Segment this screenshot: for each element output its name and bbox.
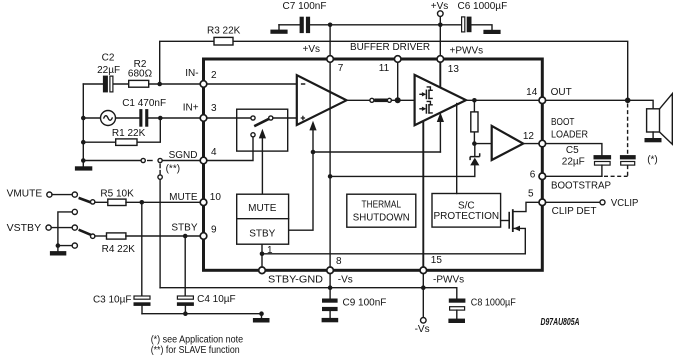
transistor glyph Q-low — [420, 101, 432, 113]
label IN- / pin 2 — [185, 68, 198, 79]
resistor R-int (bootstrap) — [471, 100, 478, 143]
speaker LS1 — [647, 94, 673, 145]
svg-text:4: 4 — [211, 147, 217, 158]
capacitor C8 1000uF — [449, 288, 516, 319]
pin 6 — [530, 170, 546, 181]
wire CLIP DET / VCLIP terminal — [546, 198, 639, 217]
pin 11 — [379, 56, 401, 74]
wire mosfet source to stby-gnd net — [262, 253, 525, 255]
wire pin13 riser from +Vs node — [439, 25, 441, 59]
wire -Vs rail — [160, 285, 457, 290]
wire pin11 riser — [397, 62, 399, 100]
node buffer input junction — [472, 141, 477, 146]
svg-text:C4 10µF: C4 10µF — [197, 294, 236, 305]
arrow mux control from MUTE block — [259, 129, 266, 194]
zener D1 — [470, 144, 480, 177]
svg-text:+Vs: +Vs — [431, 1, 449, 12]
arrow mute ctrl into power amp — [437, 112, 444, 152]
wire pin4 to switch lower contact — [207, 137, 253, 161]
power amp U1B output stage — [415, 75, 466, 125]
pin 13 — [437, 56, 459, 75]
svg-text:IN+: IN+ — [183, 103, 199, 114]
wire BOOTSTRAP pin6 — [546, 176, 612, 191]
node feedback/out junction — [625, 98, 631, 104]
wire feedback line R3 net — [160, 41, 628, 100]
svg-text:MUTE: MUTE — [248, 203, 277, 214]
wire +Vs top rail C7 to +Vs node — [279, 24, 461, 26]
capacitor C4 10uF — [177, 236, 236, 314]
node buffer/driver junction — [395, 97, 401, 103]
node +Vs terminal — [431, 1, 449, 27]
switch SW1 (mute select) — [47, 192, 108, 204]
input mux switch box — [237, 109, 288, 151]
wire to power amp input — [391, 99, 414, 101]
svg-text:10: 10 — [210, 192, 222, 203]
wire mute control net — [289, 150, 441, 231]
wire OUT to speaker — [546, 87, 654, 109]
svg-text:(**) for SLAVE function: (**) for SLAVE function — [151, 345, 240, 356]
node IN- junction — [157, 82, 162, 87]
resistor R4 22K — [102, 233, 201, 255]
wire pin7 riser (+Vs to -Vs through input stage) — [329, 25, 331, 270]
capacitor C-opt (*) dashed bootstrap — [604, 104, 658, 177]
source V1 (signal generator) — [81, 111, 139, 126]
pin 8 — [327, 256, 342, 274]
node stby/C4 junction — [183, 234, 188, 239]
svg-text:LOADER: LOADER — [551, 129, 588, 140]
svg-text:-Vs: -Vs — [338, 275, 353, 286]
ground (C7) — [270, 25, 287, 34]
svg-text:+PWVs: +PWVs — [450, 46, 484, 57]
svg-text:C9 100nF: C9 100nF — [343, 298, 387, 309]
node SGND open links — [141, 158, 162, 162]
svg-text:7: 7 — [338, 63, 344, 74]
mosfet Q1 clip detector — [501, 202, 539, 254]
svg-text:C5: C5 — [566, 145, 579, 156]
label IN+ / pin 3 — [183, 103, 199, 114]
pin 12 — [523, 131, 546, 147]
arrow mute ctrl into op-amp — [309, 121, 316, 152]
ground (speaker) — [645, 132, 662, 142]
svg-text:S/C: S/C — [458, 201, 475, 212]
svg-text:VMUTE: VMUTE — [7, 189, 43, 200]
capacitor C3 10uF — [93, 202, 151, 313]
svg-text:VSTBY: VSTBY — [7, 223, 42, 234]
wire stby block to pin1 — [260, 244, 265, 270]
svg-text:R3 22K: R3 22K — [207, 26, 241, 37]
wire pin3 to input switch — [207, 117, 251, 119]
ground (C8) — [448, 319, 465, 323]
svg-text:IN-: IN- — [185, 68, 198, 79]
svg-text:CLIP DET: CLIP DET — [552, 206, 597, 217]
label -Vs (pin 8) — [338, 275, 353, 286]
op-amp U1A input buffer — [297, 75, 347, 125]
wire pin15 riser to power stage — [422, 121, 424, 270]
label STBY-GND — [268, 275, 323, 286]
svg-text:C3 10µF: C3 10µF — [93, 294, 132, 305]
label BUFFER DRIVER — [350, 42, 430, 53]
label D97AU805A — [541, 317, 580, 328]
pin 15 — [420, 255, 442, 273]
resistor R5 10K — [100, 188, 200, 205]
svg-text:8: 8 — [336, 256, 342, 267]
svg-text:15: 15 — [431, 255, 443, 266]
resistor R2 680ohm — [128, 59, 200, 87]
svg-text:SHUTDOWN: SHUTDOWN — [353, 213, 410, 224]
svg-text:+Vs: +Vs — [302, 44, 320, 55]
svg-text:(*): (*) — [647, 155, 658, 166]
svg-text:2: 2 — [211, 70, 217, 81]
svg-text:(**): (**) — [166, 164, 180, 175]
svg-text:12: 12 — [523, 131, 535, 142]
node junction at pin7 riser top — [328, 23, 333, 28]
label +PWVs — [450, 46, 484, 57]
switch SW2 (stby select) — [46, 225, 107, 238]
svg-text:14: 14 — [526, 87, 538, 98]
svg-text:THERMAL: THERMAL — [362, 200, 402, 211]
pin 7 — [327, 56, 344, 74]
capacitor C5 22uF — [562, 145, 611, 176]
svg-text:BOOTSTRAP: BOOTSTRAP — [551, 181, 611, 192]
label -PWVs — [433, 275, 464, 286]
ground (switch) — [50, 246, 66, 256]
svg-text:6: 6 — [530, 170, 536, 181]
svg-text:22µF: 22µF — [562, 157, 585, 168]
svg-text:SGND: SGND — [169, 150, 198, 161]
wire SGND — [83, 160, 200, 162]
label VSTBY — [7, 223, 42, 234]
note (**) — [151, 345, 240, 356]
ground (input) — [75, 158, 92, 170]
svg-text:PROTECTION: PROTECTION — [434, 211, 500, 222]
svg-text:-PWVs: -PWVs — [433, 275, 464, 286]
label STBY / pin 9 — [171, 223, 197, 234]
label SGND / pin 4 — [169, 150, 198, 161]
svg-text:C8 1000µF: C8 1000µF — [471, 298, 516, 309]
terminal -Vs — [415, 288, 430, 335]
ground (STBY-GND) — [253, 314, 270, 323]
svg-text:BUFFER DRIVER: BUFFER DRIVER — [350, 42, 430, 53]
THERMAL SHUTDOWN block — [347, 194, 416, 227]
svg-text:OUT: OUT — [551, 87, 572, 98]
wire slave riser to -Vs rail — [159, 180, 161, 288]
capacitor C6 1000uF — [458, 1, 508, 32]
svg-text:C6 1000µF: C6 1000µF — [458, 1, 508, 12]
label VMUTE — [7, 189, 43, 200]
label +Vs (pin 7) — [302, 44, 320, 55]
pin 14 — [526, 87, 545, 104]
svg-text:13: 13 — [448, 64, 460, 75]
transistor glyph Q-high — [420, 87, 432, 99]
wire switch ground throws — [56, 209, 78, 248]
pin 1 — [259, 245, 273, 273]
node mute/C3 junction — [140, 200, 145, 205]
capacitor C7 100nF — [283, 1, 327, 33]
pin 5 — [528, 188, 546, 205]
wire power stage to S/C block — [456, 104, 458, 194]
IC U1 body — [204, 59, 543, 270]
svg-text:C2: C2 — [102, 53, 115, 64]
capacitor C9 100nF — [322, 288, 386, 318]
capacitor C1 470nF — [122, 98, 200, 127]
wire op-amp output to jumper — [347, 99, 370, 101]
svg-text:STBY: STBY — [249, 229, 275, 240]
svg-text:3: 3 — [211, 103, 217, 114]
resistor R3 22K — [207, 26, 241, 45]
svg-text:9: 9 — [211, 225, 217, 236]
wire pin13 riser to power stage — [439, 62, 441, 87]
wire switch to non-inverting input — [273, 117, 296, 119]
wire signal-ground rail — [142, 311, 264, 316]
label MUTE / pin 10 — [169, 192, 198, 203]
note (*) — [151, 335, 244, 346]
resistor R1 22K — [81, 118, 160, 145]
svg-text:5: 5 — [528, 188, 534, 199]
wire pin2 to op-amp inverting input — [207, 83, 296, 85]
svg-text:R4 22K: R4 22K — [102, 244, 136, 255]
S/C PROTECTION block — [432, 194, 501, 228]
wire pin8 drop — [329, 274, 331, 288]
buffer amp U1C boot loader — [474, 126, 539, 160]
svg-text:680Ω: 680Ω — [128, 68, 153, 79]
MUTE STBY block — [237, 194, 289, 244]
left input rail wire — [82, 84, 84, 161]
svg-text:STBY-GND: STBY-GND — [268, 275, 323, 286]
svg-text:STBY: STBY — [171, 223, 197, 234]
switch contacts and lever (slave mux) — [251, 116, 273, 137]
svg-text:D97AU805A: D97AU805A — [541, 317, 580, 328]
jumper link (buffer driver) — [370, 98, 392, 102]
svg-text:R5 10K: R5 10K — [100, 188, 134, 199]
capacitor C2 22uF — [83, 53, 128, 93]
label BOOT LOADER / wire pin12 — [546, 117, 602, 155]
wire zener to supply riser — [328, 174, 475, 179]
wire slave dashed drop — [158, 164, 180, 180]
svg-text:R1 22K: R1 22K — [112, 128, 146, 139]
svg-text:22µF: 22µF — [97, 65, 120, 76]
svg-text:11: 11 — [379, 63, 390, 74]
ground (C6) — [483, 30, 500, 34]
ground (C9) — [322, 318, 339, 322]
svg-text:1: 1 — [267, 245, 273, 256]
svg-text:MUTE: MUTE — [169, 192, 198, 203]
node output junction — [472, 98, 477, 103]
wire pin15 drop — [422, 274, 424, 288]
svg-text:BOOT: BOOT — [551, 117, 575, 128]
svg-text:-Vs: -Vs — [415, 324, 430, 335]
node IN+ junction — [158, 116, 163, 121]
wire output to pin14 — [466, 99, 539, 101]
svg-text:C7 100nF: C7 100nF — [283, 1, 327, 12]
svg-text:C1 470nF: C1 470nF — [122, 98, 166, 109]
svg-text:VCLIP: VCLIP — [611, 198, 639, 209]
